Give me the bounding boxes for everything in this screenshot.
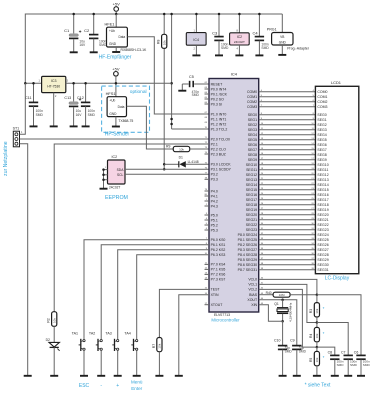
- svg-text:P0.1 /SCK: P0.1 /SCK: [211, 92, 228, 96]
- capacitor C4: [252, 13, 269, 56]
- capacitor C13: [64, 82, 82, 126]
- IC U1 IC4 microcontroller ELV07713 body: [209, 72, 259, 323]
- IC4 right pin labels, COM/SEG wires to LCD: [238, 90, 316, 272]
- wire P6 line to TA1: [84, 240, 209, 339]
- svg-text:SEG7: SEG7: [248, 148, 257, 152]
- svg-text:SEG6: SEG6: [248, 143, 257, 147]
- svg-text:+5V: +5V: [113, 2, 121, 7]
- IC IC2 24C02T EEPROM: [100, 155, 126, 189]
- svg-text:SEG20: SEG20: [246, 213, 257, 217]
- svg-text:+: +: [116, 383, 119, 389]
- svg-text:P8.6 SEG30: P8.6 SEG30: [238, 263, 258, 267]
- node ladder low: [316, 346, 319, 349]
- resistor R9: [166, 145, 209, 152]
- wire VCL2 to ladder low: [259, 289, 317, 347]
- svg-text:4,194304MHz: 4,194304MHz: [288, 302, 292, 322]
- svg-text:COM1: COM1: [247, 95, 257, 99]
- pushbutton TA3: [105, 331, 121, 375]
- svg-text:16V: 16V: [76, 113, 83, 117]
- svg-text:SMD: SMD: [363, 363, 371, 367]
- svg-text:P3.1 SCDDY: P3.1 SCDDY: [211, 168, 232, 172]
- svg-text:ST1: ST1: [13, 127, 20, 131]
- svg-text:P7.2 KS6: P7.2 KS6: [211, 273, 226, 277]
- module HFS1 TX868-75 (HF transmitter): [106, 91, 134, 127]
- wire ST1 pin2 to P2.0: [20, 138, 210, 140]
- svg-text:Q1: Q1: [274, 302, 279, 306]
- wire ladder mid to C7: [317, 323, 348, 356]
- svg-text:P7.3 KS7: P7.3 KS7: [211, 278, 226, 282]
- svg-text:P7.1 KS5: P7.1 KS5: [211, 268, 226, 272]
- svg-text:+5V: +5V: [112, 66, 120, 71]
- svg-text:P1.1 INT1: P1.1 INT1: [211, 117, 227, 121]
- svg-text:*: *: [323, 331, 325, 336]
- capacitor C10: [274, 321, 292, 376]
- svg-text:TA4: TA4: [124, 331, 130, 335]
- svg-text:IC3: IC3: [51, 79, 57, 83]
- svg-text:SMD: SMD: [261, 46, 269, 50]
- svg-text:SEG19: SEG19: [246, 208, 257, 212]
- IC IC2 supply pins (24C02T): [230, 13, 250, 56]
- svg-text:optional: optional: [130, 89, 147, 95]
- svg-text:R3: R3: [309, 309, 313, 313]
- wire P6 line to TA3: [118, 250, 209, 339]
- wire TEST to R7: [159, 289, 209, 337]
- display LCD1 body and pin labels: [315, 80, 358, 274]
- svg-text:P6.0 KS0: P6.0 KS0: [211, 238, 226, 242]
- svg-text:XIN: XIN: [251, 303, 257, 307]
- svg-text:P5.3: P5.3: [211, 228, 218, 232]
- wire +5V vertical to P1.1/P1.2/P1.3: [170, 13, 173, 129]
- svg-text:SEG13: SEG13: [317, 178, 328, 182]
- wire XIN line: [259, 305, 283, 322]
- wire XTIN to ground: [175, 295, 209, 376]
- svg-text:P4.1: P4.1: [211, 194, 218, 198]
- svg-text:ELV07713: ELV07713: [214, 313, 230, 317]
- resistor R2: [47, 312, 57, 343]
- svg-text:24C02T: 24C02T: [109, 185, 120, 189]
- svg-text:C13: C13: [64, 96, 71, 100]
- diode D2: [46, 338, 60, 376]
- svg-text:EEPROM: EEPROM: [105, 195, 128, 201]
- svg-text:SEG0: SEG0: [317, 113, 326, 117]
- svg-text:SEG18: SEG18: [246, 203, 257, 207]
- svg-text:BIAS: BIAS: [249, 293, 258, 297]
- svg-text:SMD: SMD: [337, 363, 345, 367]
- svg-text:C1: C1: [64, 28, 70, 33]
- svg-text:* siehe Text: * siehe Text: [305, 383, 331, 389]
- svg-text:SDA: SDA: [117, 168, 125, 172]
- node ladder top: [316, 293, 319, 296]
- svg-text:SEG3: SEG3: [317, 128, 326, 132]
- svg-text:SEG1: SEG1: [317, 118, 326, 122]
- svg-text:COM0: COM0: [247, 90, 257, 94]
- label LC-Display: [325, 276, 350, 282]
- svg-text:LL4148: LL4148: [188, 160, 199, 164]
- svg-text:HFS1: HFS1: [106, 91, 116, 96]
- svg-text:D2: D2: [46, 338, 50, 342]
- node +5V (HFS1): [112, 66, 120, 96]
- svg-text:P0.3 SI: P0.3 SI: [211, 102, 223, 106]
- svg-text:ESC: ESC: [79, 383, 90, 389]
- wire BIAS to R40: [259, 294, 273, 296]
- svg-text:SEG6: SEG6: [317, 143, 326, 147]
- wire XOUT line: [259, 298, 297, 345]
- svg-text:SEG16: SEG16: [317, 193, 328, 197]
- svg-text:SEG10: SEG10: [317, 163, 328, 167]
- IC IC3 HT-7530 voltage regulator: [39, 76, 69, 126]
- wire ladder top to C6: [317, 295, 361, 356]
- svg-text:R7: R7: [152, 344, 156, 348]
- wire IC3 input line: [24, 82, 42, 85]
- svg-text:SEG26: SEG26: [317, 243, 328, 247]
- svg-text:P5.2: P5.2: [211, 223, 218, 227]
- capacitor C2: [84, 13, 107, 53]
- svg-text:IC2: IC2: [112, 155, 118, 159]
- svg-text:HF-Sender: HF-Sender: [105, 131, 130, 137]
- svg-text:10k: 10k: [52, 318, 56, 323]
- svg-text:P4.0: P4.0: [211, 189, 218, 193]
- svg-text:SMD: SMD: [36, 113, 44, 117]
- svg-text:C8: C8: [328, 350, 333, 354]
- svg-text:COM0: COM0: [317, 90, 327, 94]
- svg-text:C4: C4: [252, 31, 258, 36]
- resistor R4: [309, 323, 324, 348]
- svg-text:SEG23: SEG23: [246, 228, 257, 232]
- svg-text:TA2: TA2: [89, 331, 95, 335]
- wire ST1 pin3 to ground: [20, 144, 32, 376]
- svg-text:SEG29: SEG29: [317, 258, 328, 262]
- svg-text:SMD: SMD: [350, 363, 358, 367]
- resistor R5: [309, 347, 324, 376]
- svg-text:10k: 10k: [315, 308, 319, 313]
- svg-text:16V: 16V: [79, 43, 86, 47]
- node ladder mid: [316, 321, 319, 324]
- wire ST1 pin1 to +5V rail: [20, 83, 26, 134]
- svg-text:R5: R5: [309, 358, 313, 362]
- svg-text:*: *: [323, 355, 325, 360]
- svg-text:XTIN: XTIN: [211, 293, 219, 297]
- svg-text:P2.1: P2.1: [211, 142, 218, 146]
- svg-text:Microcontroller: Microcontroller: [211, 318, 240, 323]
- svg-text:C3: C3: [212, 31, 218, 36]
- svg-text:VB: VB: [280, 35, 284, 39]
- svg-text:SEG8: SEG8: [317, 153, 326, 157]
- svg-text:LCD1: LCD1: [331, 80, 341, 85]
- svg-text:SCL: SCL: [117, 173, 124, 177]
- svg-text:10k: 10k: [315, 357, 319, 362]
- connector ST1: [13, 127, 23, 147]
- wire SCL to P3.2: [125, 173, 209, 175]
- svg-text:SEG9: SEG9: [317, 158, 326, 162]
- wire P1.3 to +5V vertical: [172, 128, 209, 130]
- svg-text:SEG2: SEG2: [248, 123, 257, 127]
- svg-text:10k: 10k: [162, 40, 166, 45]
- svg-text:SEG28: SEG28: [317, 253, 328, 257]
- capacitor C6: [354, 350, 371, 375]
- pushbutton TA2: [89, 331, 105, 375]
- pushbutton TA1: [72, 331, 88, 375]
- svg-text:Data: Data: [118, 35, 125, 39]
- svg-text:SEG25: SEG25: [317, 238, 328, 242]
- svg-text:24C02T: 24C02T: [234, 40, 245, 44]
- svg-text:P6.2 KS2: P6.2 KS2: [211, 248, 226, 252]
- svg-text:GND: GND: [109, 42, 117, 46]
- svg-text:10M: 10M: [279, 293, 285, 297]
- svg-text:SEG1: SEG1: [248, 118, 257, 122]
- svg-text:SEG7: SEG7: [317, 148, 326, 152]
- svg-text:10k: 10k: [179, 147, 184, 151]
- svg-text:SEG22: SEG22: [246, 223, 257, 227]
- svg-text:SEG31: SEG31: [317, 268, 328, 272]
- svg-text:SEG12: SEG12: [246, 173, 257, 177]
- resistor R40: [266, 291, 317, 297]
- svg-text:10k: 10k: [315, 333, 319, 338]
- box optional (dashed): [102, 86, 150, 132]
- resistor R7: [152, 338, 164, 376]
- svg-text:SMD: SMD: [192, 93, 200, 97]
- label Menue Enter: [131, 379, 143, 390]
- svg-text:P8.3 SEG27: P8.3 SEG27: [238, 248, 258, 252]
- wire +5V top rail: [25, 14, 282, 83]
- svg-text:XTOUT: XTOUT: [211, 303, 224, 307]
- capacitor C9: [290, 339, 306, 376]
- svg-text:COM3: COM3: [247, 105, 257, 109]
- svg-text:SMD: SMD: [221, 46, 229, 50]
- wire SDA to P3.1: [125, 168, 209, 170]
- capacitor C1: [64, 13, 86, 53]
- svg-text:P6.3 KS3: P6.3 KS3: [211, 253, 226, 257]
- svg-text:GND: GND: [109, 112, 117, 116]
- svg-text:P8.0 SEG24: P8.0 SEG24: [238, 233, 258, 237]
- svg-text:SMD: SMD: [299, 349, 307, 353]
- resistor R8: [157, 13, 167, 171]
- svg-text:SEG14: SEG14: [317, 183, 328, 187]
- svg-text:SMD: SMD: [285, 349, 293, 353]
- svg-text:P8.7 SEG31: P8.7 SEG31: [238, 268, 258, 272]
- IC U IC4 supply pins: [186, 13, 206, 56]
- svg-text:D1: D1: [179, 156, 183, 160]
- svg-text:SEG15: SEG15: [317, 188, 328, 192]
- capacitor C12: [77, 82, 96, 126]
- crystal Q1: [274, 300, 292, 323]
- svg-text:COM3: COM3: [317, 105, 327, 109]
- node +5V (top): [113, 2, 121, 16]
- svg-text:SEG18: SEG18: [317, 203, 328, 207]
- svg-text:SEG21: SEG21: [317, 218, 328, 222]
- svg-text:R8: R8: [157, 40, 161, 44]
- svg-text:SEG17: SEG17: [317, 198, 328, 202]
- svg-text:TX868-75: TX868-75: [118, 119, 133, 123]
- wire VCL1 to ladder mid: [259, 284, 317, 322]
- svg-text:SMD: SMD: [99, 43, 107, 47]
- svg-text:SEG21: SEG21: [246, 218, 257, 222]
- svg-text:P2.2 CLO: P2.2 CLO: [211, 147, 227, 151]
- svg-text:P2.0 TCLO0: P2.0 TCLO0: [211, 137, 230, 141]
- svg-text:P1.0 INT0: P1.0 INT0: [211, 112, 227, 116]
- svg-text:C7: C7: [341, 350, 346, 354]
- svg-text:SEG22: SEG22: [317, 223, 328, 227]
- svg-text:SEG12: SEG12: [317, 173, 328, 177]
- wire P6 line to TA4: [137, 255, 209, 339]
- svg-text:Enter: Enter: [131, 386, 142, 391]
- svg-text:SEG5: SEG5: [248, 138, 257, 142]
- svg-text:SEG0: SEG0: [248, 113, 257, 117]
- svg-text:SEG4: SEG4: [317, 133, 326, 137]
- svg-text:10k: 10k: [158, 343, 162, 348]
- svg-text:+Ub: +Ub: [109, 29, 115, 33]
- svg-text:SEG24: SEG24: [317, 233, 328, 237]
- svg-text:SEG4: SEG4: [248, 133, 257, 137]
- svg-text:C12: C12: [77, 96, 84, 100]
- svg-text:R9: R9: [166, 145, 170, 149]
- svg-text:HT-7530: HT-7530: [47, 85, 60, 89]
- connector PRG1 programming adapter: [267, 14, 310, 55]
- svg-text:SEG14: SEG14: [246, 183, 257, 187]
- svg-text:SEG3: SEG3: [248, 128, 257, 132]
- svg-text:IC4: IC4: [231, 72, 238, 77]
- capacitor C7: [341, 350, 358, 375]
- svg-text:SEG23: SEG23: [317, 228, 328, 232]
- svg-text:P7.0 KS4: P7.0 KS4: [211, 263, 226, 267]
- svg-text:P4.2: P4.2: [211, 199, 218, 203]
- svg-text:COM1: COM1: [317, 95, 327, 99]
- svg-text:SEG11: SEG11: [246, 168, 257, 172]
- svg-text:SEG2: SEG2: [317, 123, 326, 127]
- svg-text:RESET: RESET: [211, 82, 224, 86]
- svg-text:zur Netzplatine: zur Netzplatine: [3, 141, 9, 176]
- svg-text:SEG17: SEG17: [246, 198, 257, 202]
- capacitor C11: [25, 82, 43, 126]
- IC4 left pin labels and stubs: [205, 82, 232, 307]
- svg-text:TEST: TEST: [211, 288, 221, 292]
- svg-text:P8.4 SEG28: P8.4 SEG28: [238, 253, 258, 257]
- svg-text:PRG1: PRG1: [267, 28, 277, 32]
- svg-text:Prog.-Adapter: Prog.-Adapter: [287, 46, 310, 50]
- svg-text:Data: Data: [118, 105, 125, 109]
- svg-text:C2: C2: [84, 28, 90, 33]
- wire VCL0 to ladder top: [259, 279, 317, 295]
- svg-text:HF-Empfänger: HF-Empfänger: [99, 55, 132, 61]
- svg-text:SEG19: SEG19: [317, 208, 328, 212]
- label minus: [100, 383, 102, 389]
- label ESC: [79, 383, 90, 389]
- svg-text:R4: R4: [309, 334, 313, 338]
- svg-text:SEG10: SEG10: [246, 163, 257, 167]
- svg-text:SEG15: SEG15: [246, 188, 257, 192]
- svg-text:SMD: SMD: [88, 113, 96, 117]
- wire ladder low to C8: [317, 347, 335, 355]
- svg-text:P1.3 TCL2: P1.3 TCL2: [211, 127, 228, 131]
- svg-text:P8.1 SEG25: P8.1 SEG25: [238, 238, 258, 242]
- svg-text:SEG16: SEG16: [246, 193, 257, 197]
- capacitor C8: [328, 350, 345, 375]
- svg-text:LC-Display: LC-Display: [325, 276, 350, 282]
- svg-text:P4.3: P4.3: [211, 204, 218, 208]
- svg-text:VCL0: VCL0: [248, 278, 257, 282]
- svg-text:C6: C6: [354, 350, 359, 354]
- svg-text:HFE1: HFE1: [105, 21, 115, 26]
- svg-text:P3.3: P3.3: [211, 178, 218, 182]
- wire HFS1 Data to R9: [127, 106, 174, 149]
- label HF-Empfaenger: [99, 55, 132, 61]
- label HF-Sender: [105, 131, 130, 137]
- svg-text:GND: GND: [279, 40, 287, 44]
- svg-text:P5.1: P5.1: [211, 218, 218, 222]
- wire IC3 output +5V line: [66, 82, 172, 84]
- svg-text:P2.3 BUZ: P2.3 BUZ: [211, 152, 227, 156]
- svg-text:P0.0 INT4: P0.0 INT4: [211, 87, 227, 91]
- svg-text:IC2: IC2: [237, 35, 242, 39]
- svg-text:RX868SH-C3-1K: RX868SH-C3-1K: [121, 48, 148, 52]
- svg-text:SEG9: SEG9: [248, 158, 257, 162]
- svg-text:SEG13: SEG13: [246, 178, 257, 182]
- svg-text:XOUT: XOUT: [247, 298, 258, 302]
- svg-text:TA3: TA3: [105, 331, 111, 335]
- label EEPROM: [105, 195, 128, 201]
- label plus: [116, 383, 119, 389]
- svg-text:R40: R40: [266, 291, 272, 295]
- capacitor C5 (reset): [178, 75, 209, 97]
- svg-text:C5: C5: [189, 75, 194, 79]
- svg-text:R2: R2: [47, 318, 51, 322]
- svg-text:IC4: IC4: [193, 38, 199, 42]
- svg-text:C11: C11: [25, 96, 32, 100]
- IC4 bias/oscillator pin labels: [247, 278, 264, 307]
- resistor R3: [309, 295, 324, 323]
- wire P6 line to TA2: [101, 245, 209, 339]
- label zur Netzplatine: [3, 141, 9, 176]
- diode D1 LL4148: [164, 156, 209, 168]
- svg-text:P8.5 SEG29: P8.5 SEG29: [238, 258, 258, 262]
- pushbutton TA4: [124, 331, 140, 375]
- svg-text:VCL1: VCL1: [248, 283, 257, 287]
- svg-text:+Ub: +Ub: [109, 98, 115, 102]
- svg-text:SEG27: SEG27: [317, 248, 328, 252]
- svg-text:SEG11: SEG11: [317, 168, 328, 172]
- svg-text:P3.0 LCDCK: P3.0 LCDCK: [211, 163, 232, 167]
- svg-text:C10: C10: [274, 339, 280, 343]
- svg-text:SEG5: SEG5: [317, 138, 326, 142]
- svg-text:*: *: [323, 306, 325, 311]
- label siehe Text: [305, 383, 331, 389]
- svg-text:SEG30: SEG30: [317, 263, 328, 267]
- svg-text:P8.2 SEG26: P8.2 SEG26: [238, 243, 258, 247]
- svg-text:P5.0: P5.0: [211, 213, 218, 217]
- svg-text:COM2: COM2: [317, 100, 327, 104]
- wire HFE1 Data to P1.0: [127, 37, 209, 114]
- svg-text:SEG8: SEG8: [248, 153, 257, 157]
- svg-text:P6.1 KS1: P6.1 KS1: [211, 243, 226, 247]
- svg-text:P0.2 SO: P0.2 SO: [211, 97, 225, 101]
- svg-text:SEG20: SEG20: [317, 213, 328, 217]
- capacitor C3: [212, 13, 229, 56]
- svg-text:COM2: COM2: [247, 100, 257, 104]
- svg-text:C9: C9: [290, 339, 295, 343]
- svg-text:P3.2: P3.2: [211, 173, 218, 177]
- svg-text:VCL2: VCL2: [248, 288, 257, 292]
- module HFE1 RX868SH-C3-1K (HF receiver): [105, 14, 148, 52]
- svg-text:Menü: Menü: [131, 379, 143, 384]
- wire P2.1 to R2: [54, 144, 209, 312]
- svg-text:TA1: TA1: [72, 331, 78, 335]
- svg-text:P1.2 INT2: P1.2 INT2: [211, 122, 227, 126]
